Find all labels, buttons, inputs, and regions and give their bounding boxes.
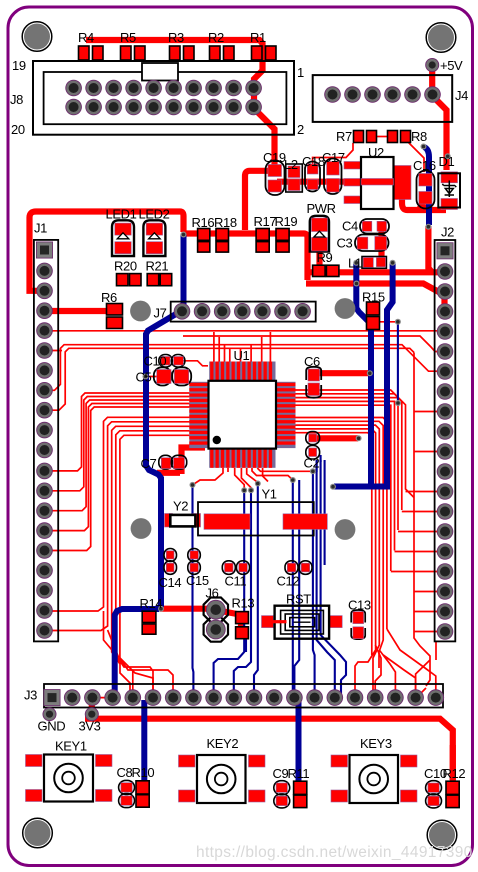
wire blue thin columns mid group (193, 480, 300, 696)
resistor R7 (354, 131, 377, 143)
resistor R10 (136, 781, 149, 807)
resistor R6 (107, 304, 123, 329)
button KEY1 (26, 755, 113, 802)
capacitor C15 (188, 549, 201, 575)
wire R7 R8 link (376, 136, 389, 138)
via (145.5,376.5) (143, 374, 149, 380)
svg-text:R10: R10 (132, 765, 155, 780)
resistor R4 (79, 46, 104, 60)
resistor R14 (142, 611, 156, 634)
pad 3V3 (85, 707, 99, 721)
hole lcd bottom-right (335, 519, 356, 540)
wire +5V to J4 to D1 (431, 65, 447, 170)
via (392.6,262.8) (390, 260, 396, 266)
svg-text:C19: C19 (263, 150, 286, 165)
svg-text:R8: R8 (411, 129, 427, 144)
svg-text:GND: GND (38, 719, 66, 734)
wire blue bar under C2 (334, 484, 390, 490)
crystal Y2 (165, 514, 201, 528)
via (398,403) (395, 400, 401, 406)
wire mid line1 J1.4 to J2.4 (45, 330, 439, 332)
svg-text:R14: R14 (140, 596, 163, 611)
hole lcd top-left (130, 301, 151, 322)
svg-text:C3: C3 (337, 236, 353, 251)
svg-text:U1: U1 (234, 348, 250, 363)
wire right bus stubs to J2 (391, 492, 438, 572)
mounting hole top-right (426, 23, 456, 53)
svg-text:R18: R18 (214, 215, 237, 230)
resistor R1 (252, 46, 277, 60)
svg-text:R9: R9 (317, 250, 333, 265)
wire J3 left red stubs (92, 611, 153, 712)
wire blue main 3V3 route via J7 (115, 234, 184, 694)
svg-text:R15: R15 (362, 290, 385, 305)
capacitor C17 (324, 159, 342, 195)
resistor R21 (147, 274, 172, 286)
svg-text:C12: C12 (277, 574, 300, 589)
capacitor C8 (119, 780, 135, 807)
svg-text:1: 1 (297, 65, 304, 80)
wire R16-R19 bus (184, 234, 308, 281)
via (292.8,480) (290, 477, 296, 483)
button KEY3 (331, 755, 417, 803)
svg-text:R6: R6 (101, 290, 117, 305)
resistor R17 (256, 229, 269, 253)
mcu U1 (189, 362, 295, 468)
hole lcd bottom-left (131, 518, 152, 539)
svg-text:C8: C8 (117, 765, 133, 780)
wire via to J2 pin2 (428, 226, 432, 272)
diode D1 (438, 172, 460, 210)
resistor R19 (276, 229, 289, 253)
led PWR (310, 216, 329, 252)
svg-text:R20: R20 (114, 259, 137, 274)
via (183.5,234.5) (181, 232, 187, 238)
wire top resistor bus R4-R1 (86, 40, 275, 167)
wire blue J3 to R11 (296, 694, 302, 783)
wire J3 right red stubs (375, 629, 436, 692)
capacitor C12 (285, 561, 312, 575)
svg-text:C16: C16 (413, 158, 436, 173)
resistor R15 (367, 302, 380, 330)
svg-text:PWR: PWR (307, 201, 336, 216)
connector J8 (33, 61, 294, 135)
capacitor C10a (159, 355, 185, 368)
svg-text:R16: R16 (192, 215, 215, 230)
wire mid line4 (45, 348, 415, 410)
connector J1 (34, 240, 58, 642)
svg-text:C14: C14 (159, 575, 182, 590)
wire mid line3 (45, 345, 439, 391)
capacitor C10b (426, 781, 442, 808)
capacitor C19 (266, 161, 285, 196)
via (161,608.7) (158, 606, 164, 612)
wire PWR to R9 (316, 244, 322, 268)
via (447.7,156.3) (445, 153, 451, 159)
resistor R8 (388, 131, 411, 143)
svg-text:KEY3: KEY3 (360, 736, 392, 751)
resistor R5 (121, 46, 146, 60)
svg-text:Y1: Y1 (262, 487, 277, 502)
resistor R13 (236, 612, 249, 639)
svg-text:LED1: LED1 (106, 207, 137, 222)
svg-text:R13: R13 (232, 596, 255, 611)
resistor R9 (313, 265, 339, 276)
wire blue R13 to J3 (245, 634, 247, 652)
led LED2 (143, 220, 165, 256)
svg-text:C7: C7 (141, 456, 157, 471)
crystal Y1 (198, 502, 327, 535)
via (356.3,262.8) (353, 260, 359, 266)
capacitor C7 (159, 455, 187, 469)
svg-text:L1: L1 (348, 256, 362, 271)
wire U1 left fan A to J1 (45, 393, 190, 551)
svg-text:J4: J4 (455, 88, 468, 103)
wire R12 feed (450, 745, 456, 784)
svg-text:J7: J7 (154, 306, 167, 321)
svg-text:C6: C6 (304, 354, 320, 369)
via (358.6,438.3) (356, 435, 362, 441)
svg-text:RST: RST (286, 592, 311, 607)
svg-text:C11: C11 (225, 574, 247, 589)
svg-text:J2: J2 (441, 225, 454, 240)
via (428.4,226.7) (425, 224, 431, 230)
inductor L2 (286, 164, 303, 192)
wire via to J6 R13 (160, 609, 241, 630)
wire blue thin columns right group (313, 460, 346, 694)
wire U1 right fan group2 (294, 418, 387, 691)
capacitor C6 (306, 367, 321, 398)
wire R8 to C16 (408, 142, 424, 172)
via (312.9,471.3) (310, 468, 316, 474)
wire C18 top to R7 (313, 143, 353, 165)
wire J1 pin3 to R6 (45, 308, 113, 314)
via (397.9,321.8) (395, 319, 401, 325)
via (192.5,484.9) (190, 482, 196, 488)
svg-text:R21: R21 (146, 259, 169, 274)
pad GND (43, 707, 57, 721)
resistor R16 (198, 229, 210, 253)
connector J6 (204, 598, 228, 642)
wire U1 right fan group1 to right bus (294, 390, 414, 571)
capacitor C13 (351, 610, 365, 639)
svg-text:C2: C2 (304, 456, 320, 471)
svg-text:C4: C4 (342, 219, 358, 234)
capacitor C16 (417, 171, 435, 209)
connector J4 (313, 75, 453, 122)
reset pad RST (262, 606, 343, 639)
svg-text:R19: R19 (275, 214, 298, 229)
via (257.8,483.5) (255, 481, 261, 487)
via (251,490.3) (248, 487, 254, 493)
svg-text:https://blog.csdn.net/weixin_4: https://blog.csdn.net/weixin_44917390 (196, 844, 473, 861)
wire J2 pin3 to pin4 (441, 293, 447, 310)
pad +5V (425, 58, 439, 72)
capacitor C18 (305, 162, 320, 192)
wire Y1 left pad stub (227, 468, 229, 472)
capacitor C4 (360, 219, 389, 234)
wire J2 low stubs (379, 322, 438, 686)
wire C4 C3 L1 column (378, 228, 384, 260)
wire C2 to via (315, 435, 358, 441)
wire C19 bottom through L2 C18 C17 to U2 (277, 179, 362, 185)
svg-text:C5: C5 (136, 370, 152, 385)
svg-text:KEY1: KEY1 (55, 739, 87, 754)
svg-text:20: 20 (11, 122, 25, 137)
wire blue Y1 area verticals (317, 455, 325, 565)
hole lcd top-right (335, 298, 356, 319)
resistor R20 (117, 274, 142, 286)
wire C7 elbow to U1 (157, 448, 205, 475)
connector J3 (44, 684, 445, 708)
resistor R12 (446, 781, 459, 807)
svg-text:R17: R17 (254, 214, 277, 229)
svg-text:R1: R1 (250, 30, 266, 45)
resistor R11 (294, 781, 307, 807)
regulator U2 (344, 157, 411, 209)
resistor R3 (170, 46, 195, 60)
mounting hole bottom-right (427, 820, 457, 850)
inductor L1 (362, 257, 386, 269)
wire mid line2 (183, 336, 438, 352)
svg-text:R7: R7 (336, 129, 352, 144)
resistor R2 (210, 46, 235, 60)
via (244.2,490.3) (241, 487, 247, 493)
capacitor C11 (222, 561, 249, 575)
wire C19 top to left loop down to R16 bus (245, 171, 272, 230)
svg-text:KEY2: KEY2 (207, 736, 239, 751)
svg-text:19: 19 (12, 58, 26, 73)
svg-text:Y2: Y2 (173, 499, 188, 514)
wire C16 to U2-D1 trace (420, 200, 430, 208)
wire C6 to via (316, 370, 368, 376)
capacitor C9 (274, 781, 290, 808)
svg-text:C9: C9 (273, 766, 289, 781)
svg-text:C13: C13 (348, 598, 371, 613)
svg-text:+5V: +5V (440, 58, 463, 73)
mounting hole top-left (22, 22, 52, 52)
wire J2 bottom diagonals to J3 (416, 642, 436, 695)
svg-text:R4: R4 (78, 30, 94, 45)
wire U2 tab to D1 (402, 196, 446, 210)
wire 3V3 GND bus (85, 699, 453, 780)
via (356.5,283.5) (354, 281, 360, 287)
svg-text:R5: R5 (120, 30, 136, 45)
svg-text:J1: J1 (34, 221, 47, 236)
svg-text:L2: L2 (284, 157, 298, 172)
svg-text:C10: C10 (144, 354, 167, 369)
connector J7 (171, 302, 316, 322)
wire blue thin columns left group (214, 484, 258, 695)
svg-text:3V3: 3V3 (79, 719, 101, 734)
wire U1 bottom fan vias (193, 468, 313, 490)
wire via to blue bar (330, 486, 334, 488)
wire blue L1 left via down (356, 264, 371, 485)
svg-text:R12: R12 (443, 766, 466, 781)
via (369.8,373.2) (367, 370, 373, 376)
button KEY2 (179, 755, 266, 803)
svg-text:J6: J6 (206, 586, 219, 601)
wire blue L1 right via down (387, 264, 393, 485)
resistor R18 (216, 229, 229, 253)
svg-text:C17: C17 (322, 150, 345, 165)
svg-text:J8: J8 (10, 92, 23, 107)
wire J1 pin5 stub (45, 350, 62, 352)
capacitor C5 (154, 367, 191, 385)
svg-text:R11: R11 (288, 766, 310, 781)
wire blue D1 area to J2 pin1 (424, 147, 429, 225)
wire C10a link to U1 (148, 361, 208, 377)
led LED1 (112, 220, 134, 256)
svg-text:2: 2 (297, 122, 304, 137)
wire bus to J2 pin3 (306, 284, 440, 292)
capacitor C2 (306, 432, 320, 460)
svg-text:J3: J3 (24, 688, 37, 703)
svg-text:R2: R2 (208, 30, 224, 45)
connector J2 (435, 240, 456, 641)
wire bus to J2 pin2 (306, 269, 438, 275)
via (423.5,146.5) (421, 144, 427, 150)
wire blue J3 to R10 (141, 700, 147, 783)
capacitor C14 (164, 549, 177, 575)
mounting hole bottom-left (23, 818, 53, 848)
wire U1 top pad drops (214, 332, 271, 363)
svg-text:LED2: LED2 (139, 207, 170, 222)
svg-text:R3: R3 (168, 30, 184, 45)
wire U1 left fan B down (45, 417, 190, 690)
svg-text:U2: U2 (368, 145, 384, 160)
via (333,486.7) (330, 484, 336, 490)
capacitor C3 (355, 235, 389, 252)
wire LED bus (30, 212, 184, 291)
svg-text:D1: D1 (439, 154, 455, 169)
